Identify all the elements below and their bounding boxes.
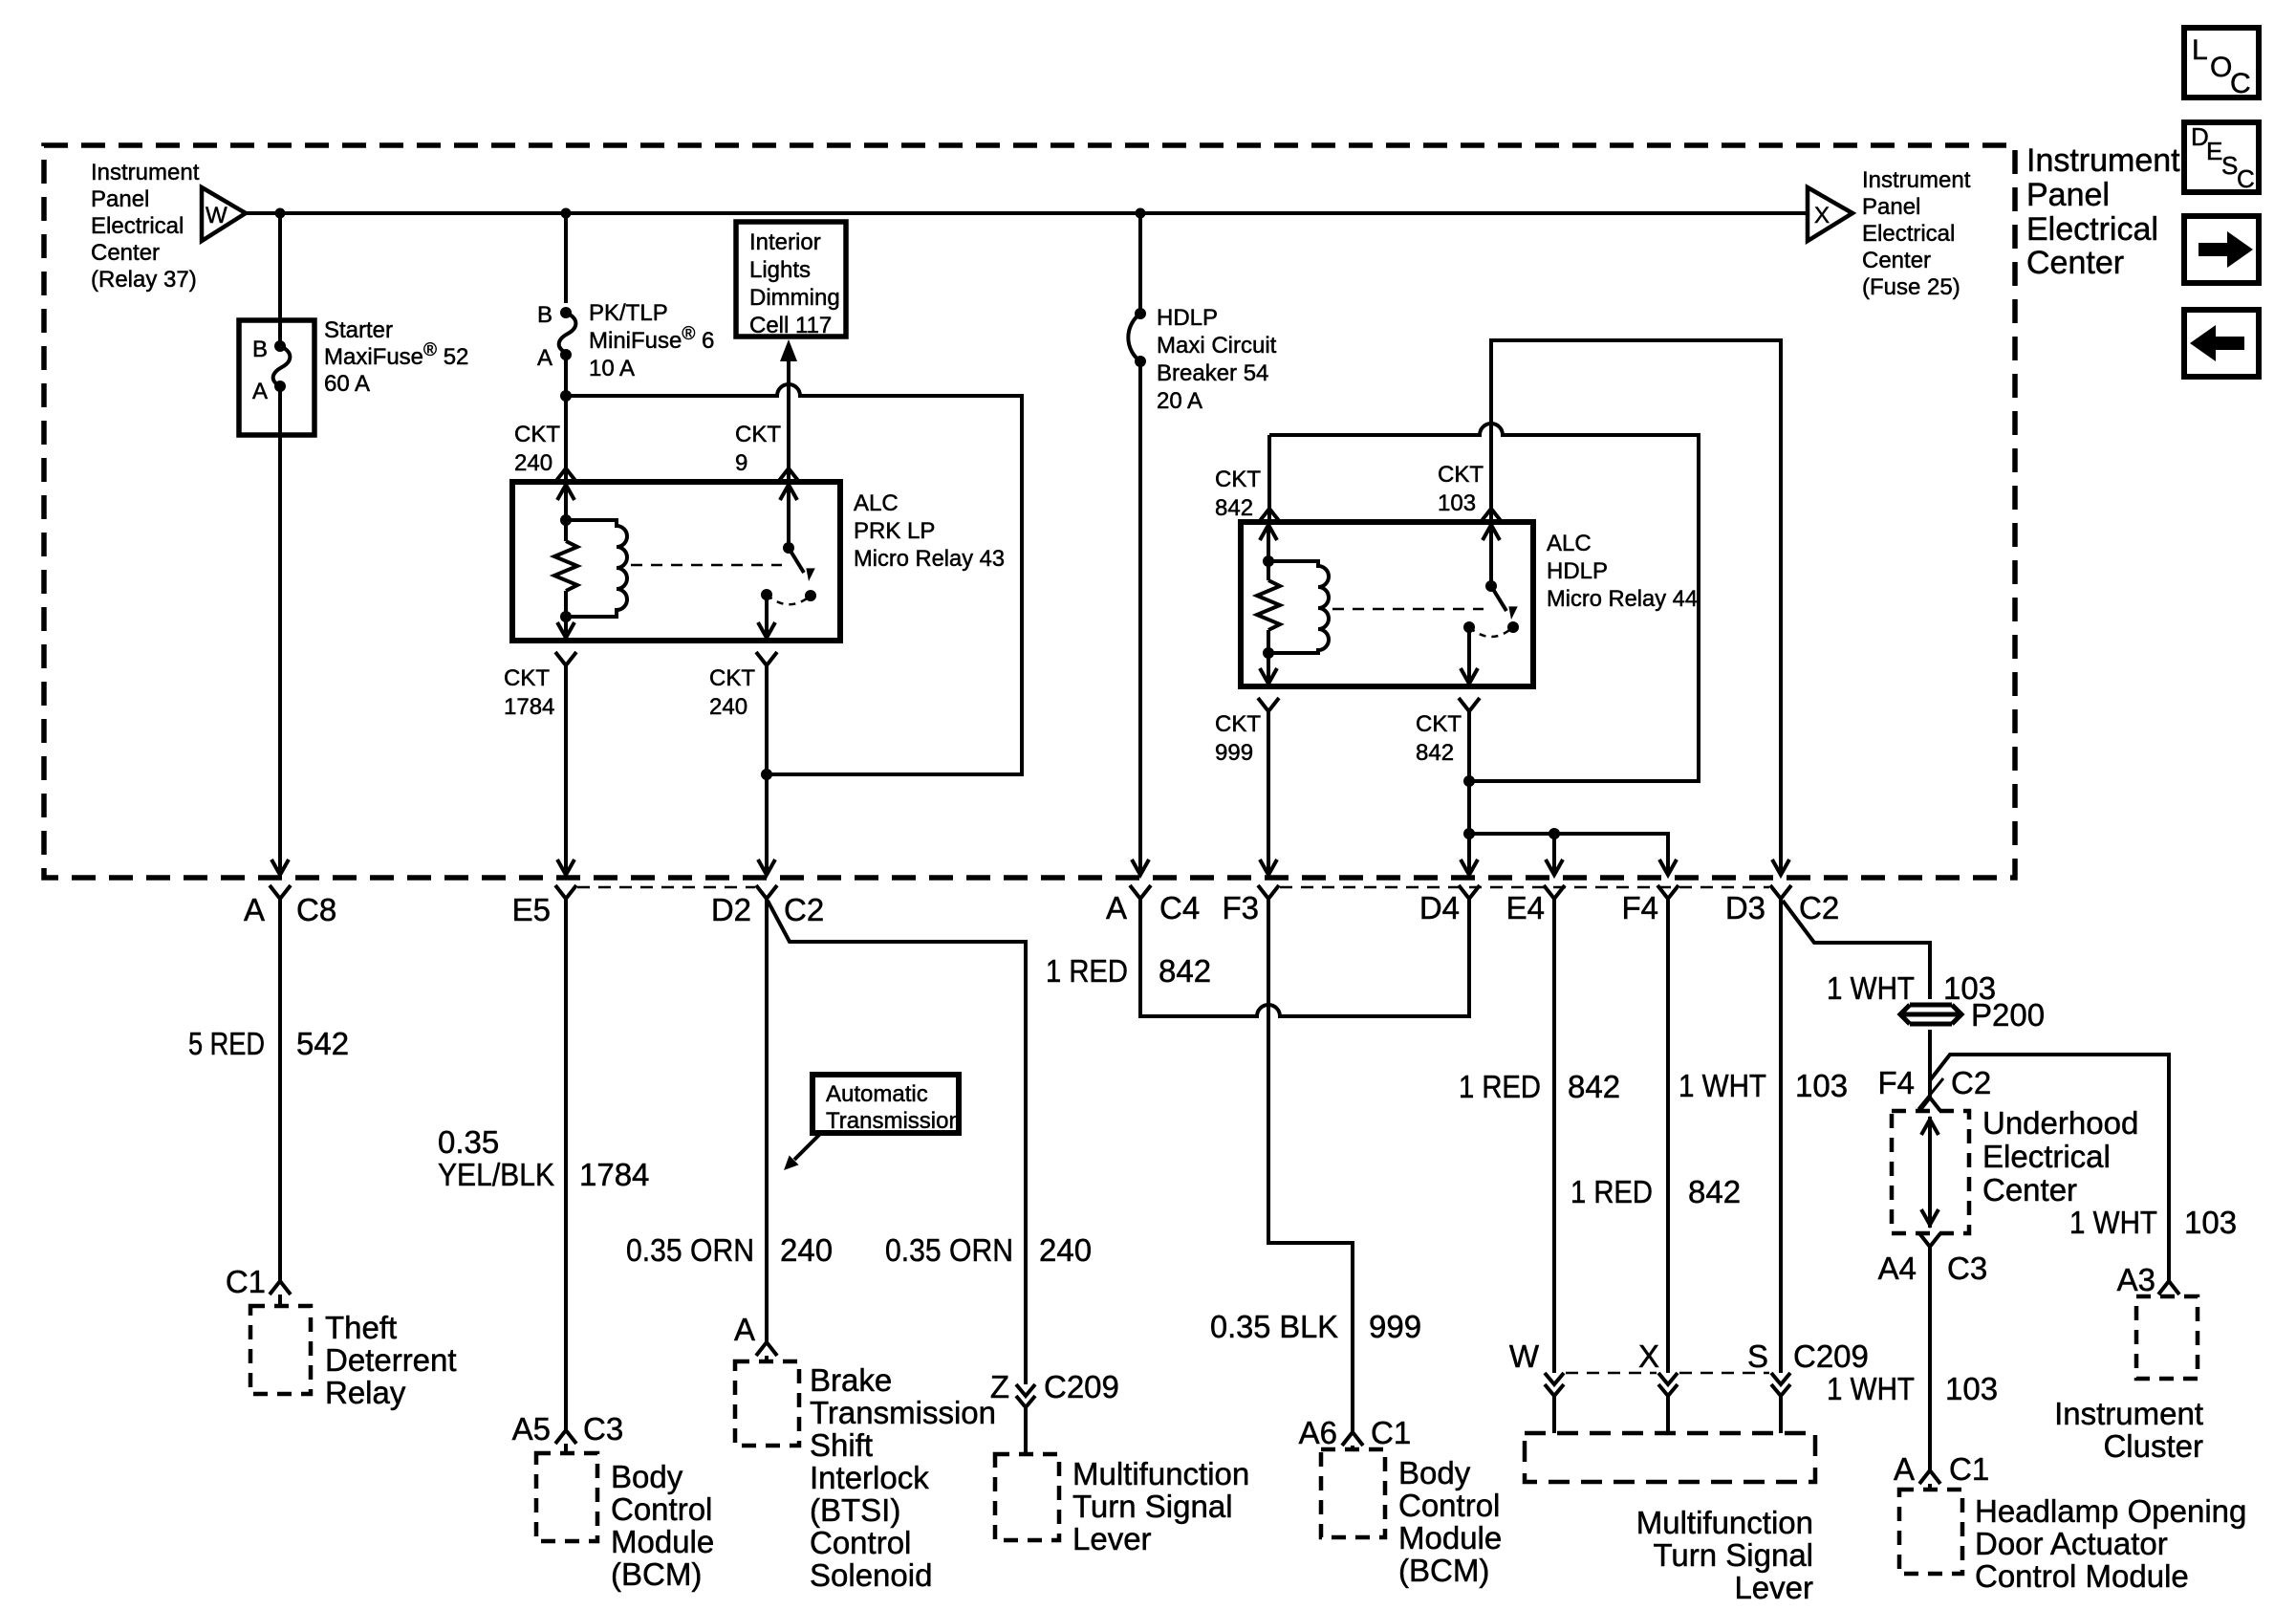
- relay 43 switch blade: [783, 542, 794, 554]
- wire F4 to X: [1666, 899, 1670, 1373]
- svg-text:Center: Center: [2026, 245, 2124, 281]
- automatic transmission callout arrow: [794, 1134, 820, 1160]
- svg-text:Automatic: Automatic: [826, 1081, 928, 1107]
- svg-text:(BCM): (BCM): [1398, 1553, 1489, 1588]
- svg-text:103: 103: [1795, 1068, 1848, 1103]
- svg-text:842: 842: [1568, 1069, 1620, 1104]
- wire CKT842 wrap around relay 44: [1269, 424, 1699, 781]
- svg-text:D2: D2: [711, 892, 751, 927]
- wire CKT240 wrap around relay 43: [566, 384, 1022, 774]
- relay 43 actuation dashed link: [631, 564, 782, 567]
- svg-text:1 RED: 1 RED: [1459, 1069, 1541, 1104]
- svg-text:Panel: Panel: [2026, 177, 2110, 213]
- svg-text:Instrument: Instrument: [1862, 167, 1971, 193]
- svg-text:HDLP: HDLP: [1157, 305, 1218, 331]
- svg-text:20 A: 20 A: [1157, 388, 1202, 414]
- svg-text:Center: Center: [91, 240, 160, 266]
- svg-text:MaxiFuse® 52: MaxiFuse® 52: [324, 340, 468, 370]
- svg-text:Transmission: Transmission: [826, 1108, 962, 1134]
- svg-text:CKT: CKT: [514, 422, 560, 447]
- svg-text:Center: Center: [1862, 248, 1931, 273]
- svg-text:Lights: Lights: [749, 257, 811, 283]
- svg-text:1 WHT: 1 WHT: [1827, 1371, 1915, 1406]
- wire MaxiFuse to connector C8: [278, 435, 282, 874]
- svg-text:CKT: CKT: [1438, 462, 1484, 488]
- relay 43 coil branch wire: [564, 482, 568, 641]
- svg-text:L: L: [2192, 34, 2208, 66]
- relay 44 actuation dashed link: [1332, 608, 1484, 611]
- svg-text:C209: C209: [1044, 1369, 1119, 1404]
- svg-text:Control Module: Control Module: [1975, 1558, 2189, 1594]
- svg-text:C209: C209: [1793, 1338, 1869, 1374]
- svg-text:ALC: ALC: [1547, 531, 1592, 556]
- svg-text:Turn Signal: Turn Signal: [1072, 1489, 1233, 1524]
- svg-text:Interlock: Interlock: [810, 1460, 929, 1495]
- svg-text:C1: C1: [1371, 1415, 1411, 1450]
- LOC nav box: [2184, 28, 2259, 98]
- relay 43 bottom pins: [555, 652, 576, 665]
- svg-text:Electrical: Electrical: [2026, 211, 2158, 248]
- svg-text:Cell 117: Cell 117: [749, 313, 832, 338]
- wire CKT9 up into dimming cell with solid arrow: [780, 339, 797, 361]
- svg-text:A: A: [734, 1312, 755, 1347]
- connector same-connector dashed tie W-X-S: [1566, 1372, 1769, 1375]
- svg-text:542: 542: [296, 1026, 349, 1061]
- svg-text:O: O: [2210, 52, 2232, 83]
- svg-text:Instrument: Instrument: [91, 160, 200, 185]
- svg-text:0.35 ORN: 0.35 ORN: [626, 1232, 754, 1268]
- svg-text:999: 999: [1215, 740, 1253, 766]
- svg-text:A4: A4: [1878, 1251, 1917, 1286]
- svg-text:A6: A6: [1299, 1415, 1337, 1450]
- svg-text:A: A: [244, 892, 265, 927]
- multifunction turn signal lever dashed box (right): [1525, 1433, 1815, 1482]
- svg-text:240: 240: [780, 1232, 833, 1268]
- off-page connector X: [1808, 187, 1852, 241]
- wire CKT103 route to D3: [1491, 340, 1781, 874]
- wire CKT1784 to connector E5: [564, 665, 568, 874]
- relay 43 pin connectors: [555, 468, 576, 482]
- node junction CKT240 branch: [560, 390, 572, 402]
- svg-text:CKT: CKT: [1215, 711, 1261, 737]
- svg-text:C2: C2: [1951, 1065, 1991, 1100]
- wire MiniFuse A to relay 43 pin: [564, 355, 568, 468]
- connector pin D2 C2: [756, 885, 777, 899]
- relay 44 coil branch wire: [1267, 522, 1270, 686]
- svg-text:A: A: [537, 345, 552, 371]
- svg-text:Breaker 54: Breaker 54: [1157, 360, 1268, 386]
- svg-text:HDLP: HDLP: [1547, 558, 1608, 584]
- svg-text:10 A: 10 A: [589, 356, 635, 381]
- connector pin D3 C2: [1770, 885, 1791, 899]
- svg-text:C2: C2: [784, 892, 824, 927]
- off-page connector W: [202, 187, 246, 241]
- svg-text:240: 240: [514, 450, 552, 476]
- svg-text:Instrument: Instrument: [2026, 142, 2180, 179]
- node junction on bus at MaxiFuse: [275, 208, 286, 219]
- body control module dashed box 2: [1321, 1449, 1385, 1537]
- wire E5 to BCM A5: [564, 899, 568, 1430]
- wire Z to multifunction lever: [1024, 1407, 1028, 1454]
- svg-text:F4: F4: [1877, 1065, 1915, 1100]
- svg-text:F4: F4: [1621, 890, 1658, 925]
- svg-text:C1: C1: [226, 1264, 266, 1299]
- svg-text:(Relay 37): (Relay 37): [91, 267, 197, 293]
- svg-text:C8: C8: [296, 892, 336, 927]
- svg-text:C3: C3: [1947, 1251, 1987, 1286]
- svg-text:F3: F3: [1222, 890, 1259, 925]
- svg-text:Z: Z: [990, 1369, 1009, 1404]
- wire CKT842 pin stub: [1267, 435, 1271, 514]
- svg-text:103: 103: [1438, 490, 1476, 516]
- connector pin A C4: [1130, 885, 1151, 899]
- svg-text:0.35 ORN: 0.35 ORN: [885, 1232, 1013, 1268]
- svg-text:1 RED: 1 RED: [1570, 1174, 1653, 1209]
- circuit breaker 54 element: [1135, 308, 1146, 319]
- relay 44 resistor: [1257, 580, 1280, 630]
- svg-text:ALC: ALC: [854, 490, 899, 516]
- svg-text:Relay: Relay: [325, 1375, 406, 1410]
- svg-text:1 WHT: 1 WHT: [1827, 970, 1915, 1006]
- svg-text:MiniFuse® 6: MiniFuse® 6: [589, 324, 714, 354]
- svg-text:Underhood: Underhood: [1982, 1105, 2138, 1141]
- wire breaker to connector A C4: [1138, 361, 1142, 874]
- svg-text:Multifunction: Multifunction: [1072, 1456, 1249, 1491]
- relay 44 output wire: [1467, 627, 1471, 686]
- instrument panel electrical center dashed box: [44, 145, 2015, 878]
- fuse F52 Starter MaxiFuse box: [239, 320, 314, 435]
- DESC nav box: [2184, 122, 2259, 192]
- svg-text:999: 999: [1369, 1309, 1421, 1344]
- svg-text:E5: E5: [512, 892, 551, 927]
- svg-text:W: W: [1509, 1338, 1540, 1374]
- svg-text:842: 842: [1688, 1174, 1741, 1209]
- svg-text:Dimming: Dimming: [749, 285, 840, 311]
- svg-text:Multifunction: Multifunction: [1636, 1505, 1813, 1540]
- svg-text:240: 240: [1039, 1232, 1092, 1268]
- svg-text:842: 842: [1159, 953, 1211, 989]
- svg-text:Deterrent: Deterrent: [325, 1342, 457, 1378]
- svg-text:Body: Body: [611, 1459, 683, 1494]
- relay 44 pin connectors: [1259, 509, 1280, 522]
- svg-text:C: C: [2237, 164, 2255, 193]
- svg-text:Body: Body: [1398, 1455, 1471, 1490]
- svg-text:A: A: [252, 379, 268, 404]
- node junction on D2 wire: [761, 769, 772, 780]
- svg-text:1784: 1784: [579, 1157, 649, 1192]
- svg-text:CKT: CKT: [1416, 711, 1462, 737]
- svg-text:A3: A3: [2117, 1262, 2155, 1297]
- body control module dashed box: [536, 1453, 597, 1541]
- svg-text:60 A: 60 A: [324, 371, 370, 397]
- wire CKT999 to connector F3: [1267, 711, 1270, 874]
- relay U44 ALC HDLP micro relay box: [1241, 522, 1533, 686]
- relay 44 coil: [1268, 561, 1329, 653]
- svg-text:PRK LP: PRK LP: [854, 518, 935, 544]
- svg-text:Control: Control: [611, 1491, 712, 1527]
- svg-text:Lever: Lever: [1072, 1521, 1152, 1556]
- svg-text:103: 103: [2184, 1205, 2237, 1240]
- svg-text:1 WHT: 1 WHT: [2069, 1205, 2157, 1240]
- svg-text:Solenoid: Solenoid: [810, 1557, 932, 1593]
- relay 44 switch common wire: [1489, 522, 1493, 586]
- svg-text:Electrical: Electrical: [91, 213, 184, 239]
- svg-text:A: A: [1106, 890, 1127, 925]
- svg-text:E4: E4: [1506, 890, 1545, 925]
- svg-text:Micro Relay 44: Micro Relay 44: [1547, 586, 1698, 612]
- svg-text:Maxi Circuit: Maxi Circuit: [1157, 333, 1277, 359]
- svg-text:Control: Control: [810, 1525, 911, 1560]
- wire D3 to S: [1779, 899, 1783, 1373]
- wire branch to instrument cluster: [1930, 1055, 2169, 1281]
- svg-text:P200: P200: [1971, 997, 2045, 1033]
- connector pin E4: [1544, 885, 1565, 899]
- svg-text:X: X: [1638, 1338, 1659, 1374]
- svg-text:B: B: [537, 302, 552, 328]
- main bus wire W to X: [246, 211, 1808, 215]
- svg-text:Lever: Lever: [1734, 1570, 1813, 1605]
- wire C2 branch from D2 to Z C209: [768, 901, 1026, 1384]
- connector pin F4: [1657, 885, 1679, 899]
- wire CKT240 to connector D2: [765, 665, 769, 874]
- svg-text:842: 842: [1215, 495, 1253, 521]
- svg-text:Door Actuator: Door Actuator: [1975, 1526, 2168, 1561]
- wires into multifunction lever box: [1554, 1396, 1781, 1433]
- svg-text:S: S: [2221, 151, 2238, 180]
- svg-text:240: 240: [709, 694, 747, 720]
- relay 44 bottom pins: [1258, 698, 1279, 711]
- svg-text:A: A: [1894, 1451, 1915, 1487]
- svg-text:0.35 BLK: 0.35 BLK: [1210, 1309, 1338, 1344]
- wire E4 to W: [1552, 899, 1556, 1373]
- svg-text:C2: C2: [1799, 890, 1839, 925]
- wire F3 to BCM A6: [1268, 899, 1353, 1432]
- relay 44 switch blade: [1485, 580, 1497, 592]
- svg-text:C4: C4: [1159, 890, 1200, 925]
- wire A C4 to D4 link: [1140, 899, 1469, 1016]
- connector pin A C8: [270, 885, 291, 899]
- wire branch to E4 and F4: [1469, 834, 1668, 874]
- svg-text:CKT: CKT: [1215, 467, 1261, 492]
- relay U43 ALC PRK LP micro relay box: [512, 482, 840, 641]
- wire through underhood center: [1928, 1117, 1932, 1228]
- svg-text:C1: C1: [1949, 1451, 1989, 1487]
- svg-text:(BCM): (BCM): [611, 1556, 702, 1592]
- svg-text:Panel: Panel: [91, 186, 149, 212]
- svg-text:1 WHT: 1 WHT: [1679, 1068, 1766, 1103]
- svg-text:(BTSI): (BTSI): [810, 1492, 900, 1528]
- relay 43 contacts: [761, 589, 772, 600]
- connector pin A4 C3: [1919, 1233, 1940, 1247]
- svg-text:Electrical: Electrical: [1862, 221, 1955, 247]
- multifunction turn signal lever dashed box (left): [995, 1454, 1059, 1540]
- svg-text:Electrical: Electrical: [1982, 1139, 2111, 1174]
- svg-text:CKT: CKT: [735, 422, 781, 447]
- svg-text:0.35: 0.35: [438, 1124, 499, 1160]
- fuse F6 PK/TLP MiniFuse element: [560, 307, 572, 318]
- svg-text:D4: D4: [1419, 890, 1460, 925]
- svg-text:D3: D3: [1725, 890, 1765, 925]
- svg-text:Instrument: Instrument: [2054, 1396, 2203, 1431]
- svg-text:A5: A5: [512, 1411, 551, 1447]
- interior lights dimming cell 117 box: [736, 222, 846, 337]
- left arrow nav box: [2184, 310, 2259, 377]
- relay 43 resistor: [554, 541, 577, 591]
- svg-text:YEL/BLK: YEL/BLK: [438, 1157, 554, 1192]
- splice P200: [1900, 1005, 1961, 1024]
- svg-text:E: E: [2206, 137, 2222, 165]
- node junction on bus at MiniFuse: [561, 208, 572, 219]
- svg-text:Cluster: Cluster: [2103, 1428, 2203, 1464]
- svg-text:Shift: Shift: [810, 1427, 873, 1463]
- wire D2 to BTSI: [765, 899, 769, 1342]
- svg-text:842: 842: [1416, 740, 1454, 766]
- svg-text:Interior: Interior: [749, 229, 821, 255]
- right arrow nav box: [2184, 216, 2259, 283]
- svg-text:Control: Control: [1398, 1488, 1500, 1523]
- svg-text:(Fuse 25): (Fuse 25): [1862, 274, 1960, 300]
- fuse F52 element: [278, 320, 282, 346]
- underhood electrical center dashed box: [1892, 1111, 1969, 1233]
- svg-text:C: C: [2230, 68, 2251, 99]
- svg-text:Brake: Brake: [810, 1362, 892, 1398]
- wire bus to MiniFuse: [564, 213, 568, 303]
- svg-text:103: 103: [1945, 1371, 1998, 1406]
- wire C8 to theft deterrent relay: [278, 899, 282, 1281]
- BTSI control solenoid dashed box: [735, 1361, 799, 1446]
- svg-text:Transmission: Transmission: [810, 1395, 996, 1430]
- connector same-connector dashed tie E5-D2: [577, 886, 755, 889]
- svg-text:9: 9: [735, 450, 747, 476]
- relay 43 output wire: [765, 595, 769, 641]
- connector pin E5: [555, 885, 576, 899]
- svg-text:1 RED: 1 RED: [1046, 953, 1128, 989]
- connector pin D4: [1459, 885, 1480, 899]
- wire CKT842 to connector D4 with branches: [1467, 711, 1471, 874]
- svg-text:S: S: [1747, 1338, 1768, 1374]
- connector same-connector dashed tie F3-D3: [1280, 886, 1769, 889]
- svg-text:5 RED: 5 RED: [188, 1026, 265, 1061]
- svg-text:X: X: [1814, 203, 1830, 228]
- svg-text:Headlamp Opening: Headlamp Opening: [1975, 1493, 2246, 1529]
- svg-text:CKT: CKT: [504, 665, 550, 691]
- svg-text:Turn Signal: Turn Signal: [1653, 1537, 1813, 1573]
- svg-text:Micro Relay 43: Micro Relay 43: [854, 546, 1005, 572]
- svg-text:C3: C3: [583, 1411, 623, 1447]
- automatic transmission callout box: [812, 1075, 959, 1133]
- relay 44 contacts: [1463, 621, 1475, 633]
- relay 43 switch common wire: [787, 482, 791, 548]
- wire C2 branch from D3 to P200: [1783, 901, 1930, 999]
- svg-text:CKT: CKT: [709, 665, 755, 691]
- svg-text:Module: Module: [611, 1524, 714, 1559]
- wire bus to HDLP breaker: [1138, 213, 1142, 314]
- headlamp opening door actuator control module dashed box: [1899, 1490, 1962, 1574]
- connector pin F3: [1258, 885, 1279, 899]
- svg-text:Center: Center: [1982, 1172, 2077, 1207]
- instrument cluster dashed box: [2136, 1296, 2198, 1379]
- svg-text:Theft: Theft: [325, 1310, 397, 1345]
- svg-text:PK/TLP: PK/TLP: [589, 300, 668, 326]
- wire bus to MaxiFuse: [278, 213, 282, 320]
- svg-text:W: W: [206, 203, 227, 228]
- relay 43 coil: [566, 520, 627, 617]
- wire P200 to underhood electrical center: [1928, 1030, 1932, 1098]
- svg-text:B: B: [252, 337, 268, 362]
- svg-text:1784: 1784: [504, 694, 554, 720]
- wire A4 to headlamp module: [1928, 1247, 1932, 1470]
- svg-text:Panel: Panel: [1862, 194, 1920, 220]
- svg-text:Starter: Starter: [324, 317, 393, 343]
- theft deterrent relay dashed box: [250, 1306, 311, 1394]
- node junction on bus at breaker: [1136, 208, 1146, 219]
- svg-text:Module: Module: [1398, 1520, 1502, 1556]
